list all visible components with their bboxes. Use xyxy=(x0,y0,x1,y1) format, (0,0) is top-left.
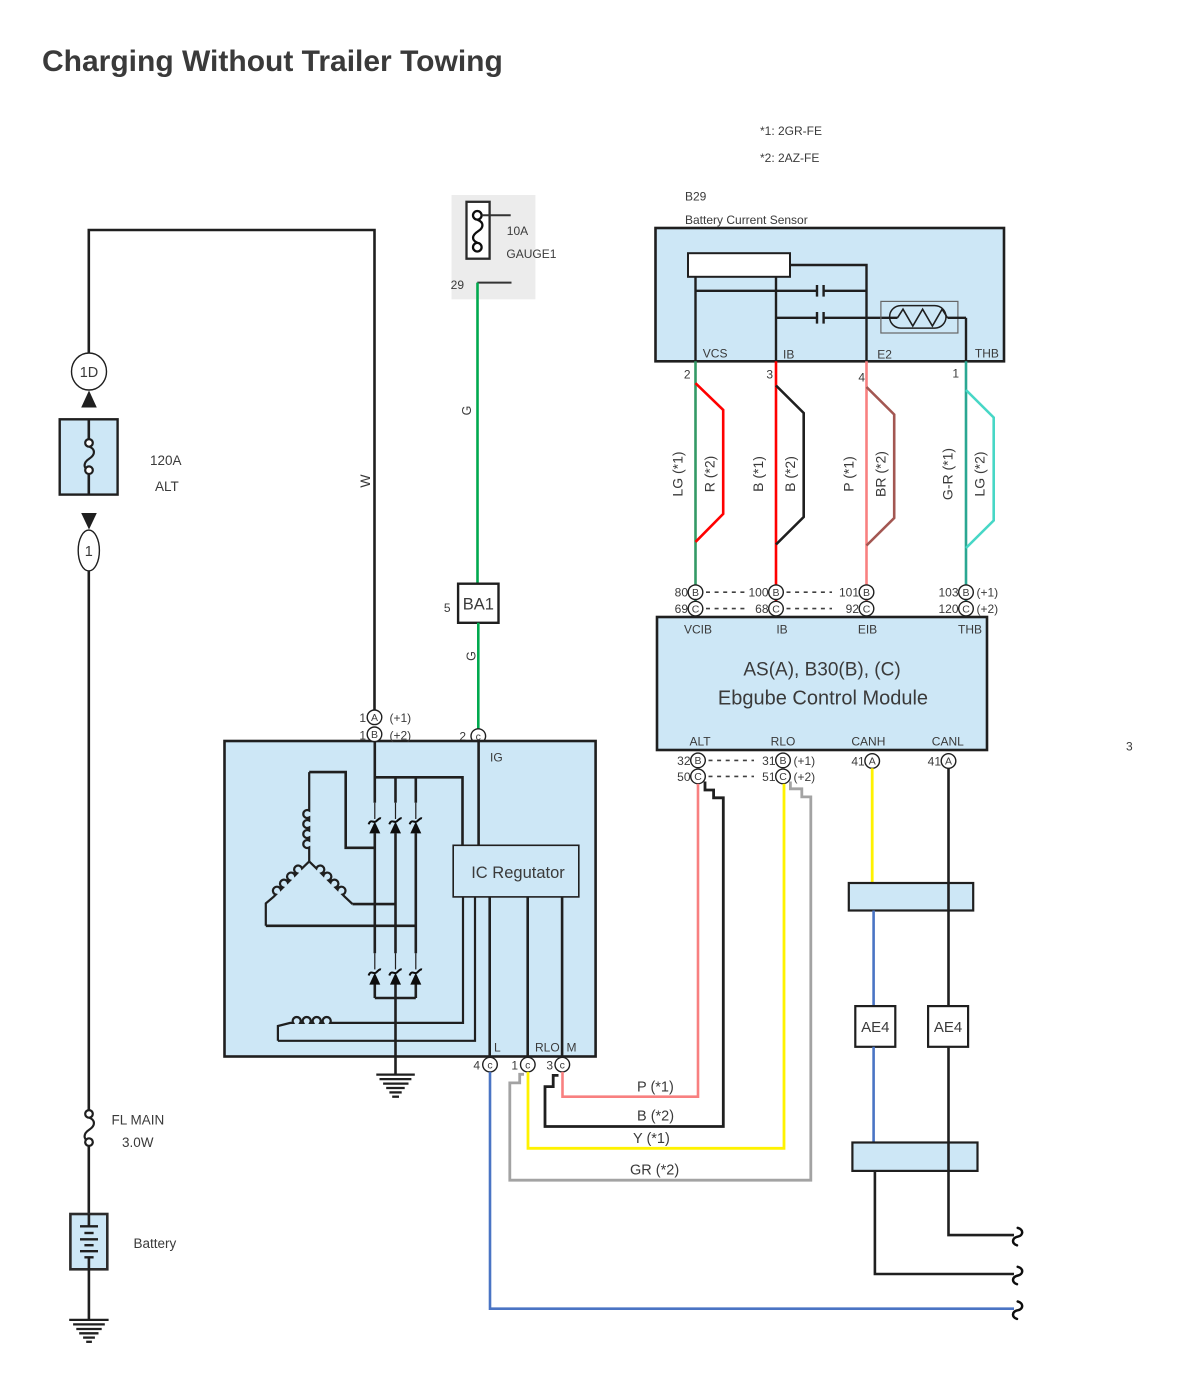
svg-text:Charging Without Trailer Towin: Charging Without Trailer Towing xyxy=(42,45,503,78)
svg-text:103: 103 xyxy=(938,586,958,600)
svg-text:CANL: CANL xyxy=(932,735,964,749)
svg-text:BA1: BA1 xyxy=(463,596,494,614)
svg-text:AE4: AE4 xyxy=(934,1019,962,1036)
svg-text:120A: 120A xyxy=(150,453,182,468)
wire node1 to FL MAIN xyxy=(88,571,91,1111)
connector AE4 (CANH) xyxy=(855,1006,895,1047)
svg-text:*1: 2GR-FE: *1: 2GR-FE xyxy=(760,124,822,138)
svg-text:4: 4 xyxy=(473,1058,480,1072)
fusible link FL MAIN xyxy=(85,1110,94,1146)
alternator box xyxy=(225,741,596,1057)
wire G: fuse 29 to BA1 xyxy=(476,283,479,584)
svg-text:G: G xyxy=(465,651,479,661)
diode D2 (upper col2) xyxy=(389,818,401,833)
svg-text:L: L xyxy=(494,1041,501,1055)
wire CANL (black) xyxy=(947,768,950,1006)
rotor field coil xyxy=(278,897,463,1041)
svg-text:VCS: VCS xyxy=(703,347,728,361)
svg-text:1: 1 xyxy=(952,367,959,381)
svg-text:(+1): (+1) xyxy=(794,754,816,768)
stator phase A coil xyxy=(303,772,309,861)
fuse 10A GAUGE1 (panel) xyxy=(452,195,536,299)
connector 103 B (+1) (THB) xyxy=(938,585,998,600)
dashed link B row 2-3 xyxy=(787,591,833,593)
svg-text:68: 68 xyxy=(755,602,769,616)
dashed link C row 1-2 xyxy=(706,608,749,610)
wire lower junction to splice (black) xyxy=(875,1171,1014,1274)
svg-text:1: 1 xyxy=(359,711,366,725)
wire L to splice (blue) xyxy=(490,1072,1014,1309)
svg-text:(+2): (+2) xyxy=(390,729,412,743)
svg-text:P (*1): P (*1) xyxy=(841,456,857,492)
wire: battery + rail (top loop to alternator B terminal) xyxy=(89,230,375,710)
wire AE4 to lower junction (blue) xyxy=(872,1047,875,1143)
svg-text:29: 29 xyxy=(451,278,465,292)
svg-text:3.0W: 3.0W xyxy=(122,1135,154,1150)
svg-text:B: B xyxy=(863,587,870,599)
svg-text:IB: IB xyxy=(783,348,794,362)
svg-text:2: 2 xyxy=(684,368,691,382)
sensor: shunt element xyxy=(688,253,790,277)
svg-text:1: 1 xyxy=(511,1058,518,1072)
svg-text:THB: THB xyxy=(958,623,982,637)
diode bus (top) to IC regulator xyxy=(375,777,463,845)
svg-text:BR (*2): BR (*2) xyxy=(873,451,889,497)
ground (battery) xyxy=(69,1320,108,1342)
wire FL MAIN to battery xyxy=(88,1146,91,1214)
fuse 10A GAUGE1 symbol xyxy=(467,202,511,259)
svg-text:A: A xyxy=(945,756,952,768)
svg-text:80: 80 xyxy=(675,586,689,600)
svg-text:69: 69 xyxy=(675,602,689,616)
svg-text:B (*1): B (*1) xyxy=(750,456,766,492)
svg-text:G-R (*1): G-R (*1) xyxy=(940,448,956,500)
wire G: BA1 to IG pin xyxy=(477,623,480,730)
svg-text:AE4: AE4 xyxy=(861,1019,889,1036)
fuse 120A ALT xyxy=(60,419,118,494)
diode column 1 segments xyxy=(374,803,376,998)
wire battery to ground xyxy=(88,1269,91,1319)
svg-text:B: B xyxy=(962,587,969,599)
svg-text:51: 51 xyxy=(762,770,776,784)
svg-text:C: C xyxy=(772,603,780,615)
diode D1 (upper col1) xyxy=(369,818,381,833)
svg-text:120: 120 xyxy=(938,602,958,616)
connector 41 A (CANH) xyxy=(851,754,879,769)
wire RLO pin xyxy=(526,897,529,1057)
svg-text:B: B xyxy=(371,729,378,741)
svg-text:4: 4 xyxy=(858,371,865,385)
sensor: wire THB vertical xyxy=(965,318,967,362)
wire arrow up into 1D xyxy=(81,391,97,408)
svg-text:3: 3 xyxy=(1126,740,1133,754)
CAN junction connector (upper) xyxy=(849,883,973,911)
svg-text:C: C xyxy=(779,771,787,783)
connector 50 C (ALT) xyxy=(677,769,705,784)
connector 120 C (+2) (THB) xyxy=(938,601,998,616)
svg-text:Battery Current Sensor: Battery Current Sensor xyxy=(685,213,808,227)
capacitor C2 (IB-THB) xyxy=(776,312,898,324)
connector 1 B (+2) (B terminal) xyxy=(359,727,411,743)
connector 1 A (+1) (B terminal) xyxy=(359,710,411,725)
svg-text:50: 50 xyxy=(677,770,691,784)
IC regulator box xyxy=(453,845,579,897)
svg-text:GR (*2): GR (*2) xyxy=(630,1163,679,1179)
svg-text:101: 101 xyxy=(839,586,859,600)
svg-text:c: c xyxy=(487,1059,492,1071)
connector 1 c (RLO) xyxy=(511,1057,535,1072)
svg-text:A: A xyxy=(371,712,378,724)
wire arrow down to node 1 xyxy=(81,513,97,530)
wire phase A to diode column 1 xyxy=(309,772,375,848)
stator phase C coil (right arm) xyxy=(309,861,352,904)
svg-text:EIB: EIB xyxy=(858,623,877,637)
svg-text:B (*2): B (*2) xyxy=(782,456,798,492)
CAN junction connector (lower) xyxy=(852,1143,977,1171)
diode column 2 segments xyxy=(394,777,397,1074)
svg-text:Y (*1): Y (*1) xyxy=(633,1131,670,1147)
svg-text:IB: IB xyxy=(776,623,787,637)
svg-text:B: B xyxy=(779,755,786,767)
connector 80 B (VCIB) xyxy=(675,585,703,600)
dashed link module B row xyxy=(709,759,755,761)
wire phase C to diode column 2 xyxy=(353,903,396,906)
sensor: wire VCS vertical xyxy=(694,277,696,362)
wire B (*2) ALT to M xyxy=(545,782,723,1127)
dashed link C row 2-3 xyxy=(787,608,833,610)
svg-text:100: 100 xyxy=(748,586,768,600)
wire Y (*1) RLO to RLO xyxy=(528,784,784,1149)
svg-text:G: G xyxy=(460,406,474,416)
wire phase B to diode column 3 xyxy=(266,924,416,927)
svg-text:31: 31 xyxy=(762,754,776,768)
svg-text:AS(A), B30(B), (C): AS(A), B30(B), (C) xyxy=(743,660,900,681)
svg-text:E2: E2 xyxy=(877,348,892,362)
svg-text:*2: 2AZ-FE: *2: 2AZ-FE xyxy=(760,151,819,165)
svg-text:Ebgube Control Module: Ebgube Control Module xyxy=(718,688,928,710)
op module: Ebgube Control Module box xyxy=(657,617,987,750)
svg-text:C: C xyxy=(692,603,700,615)
connector 68 C (IB) xyxy=(755,601,783,616)
svg-text:M: M xyxy=(567,1041,577,1055)
ground (alternator) xyxy=(376,1075,415,1097)
svg-text:c: c xyxy=(560,1059,565,1071)
svg-text:B: B xyxy=(772,587,779,599)
diode D5 (lower col2) xyxy=(389,969,401,984)
wire CANL through junction to splice xyxy=(949,1047,1015,1235)
connector 41 A (CANL) xyxy=(928,754,956,769)
svg-text:41: 41 xyxy=(928,755,942,769)
svg-text:5: 5 xyxy=(444,601,451,615)
svg-text:C: C xyxy=(863,603,871,615)
wire LG (*1) VCS to VCIB xyxy=(694,361,697,617)
wire M pin xyxy=(561,897,564,1057)
connector 69 C (VCIB) xyxy=(675,601,703,616)
sensor: wire shunt to E2 xyxy=(790,265,867,361)
wire G-R (*1) THB to THB xyxy=(965,361,968,617)
svg-text:(+2): (+2) xyxy=(977,602,999,616)
wire R (*2) bypass xyxy=(696,383,724,542)
svg-text:41: 41 xyxy=(851,755,865,769)
svg-text:B: B xyxy=(694,755,701,767)
svg-text:R (*2): R (*2) xyxy=(702,456,718,493)
dashed link module C row xyxy=(709,775,755,777)
svg-text:32: 32 xyxy=(677,754,691,768)
svg-text:ALT: ALT xyxy=(155,479,179,494)
sensor: wire IB vertical xyxy=(775,277,777,362)
wire B+ into diode column 1 xyxy=(373,741,376,803)
svg-text:THB: THB xyxy=(975,347,999,361)
svg-text:FL MAIN: FL MAIN xyxy=(112,1113,165,1128)
connector 101 B (EIB) xyxy=(839,585,874,600)
connector 31 B (+1) (RLO) xyxy=(762,753,815,768)
wire BR (*2) bypass xyxy=(867,387,895,546)
svg-text:IC Regutator: IC Regutator xyxy=(471,864,565,882)
diode D6 (lower col3) xyxy=(410,969,422,984)
svg-text:GAUGE1: GAUGE1 xyxy=(506,247,556,261)
svg-text:(+2): (+2) xyxy=(794,770,816,784)
wire P (*1) ALT to M xyxy=(563,784,699,1097)
connector BA1 xyxy=(458,584,498,623)
svg-text:10A: 10A xyxy=(507,224,528,238)
wire GR (*2) RLO to RLO xyxy=(510,782,811,1181)
wire CANH lower (blue) xyxy=(872,911,875,1007)
svg-text:W: W xyxy=(357,474,373,488)
stator phase B coil (left arm) xyxy=(266,861,309,925)
svg-text:A: A xyxy=(869,756,876,768)
svg-text:(+1): (+1) xyxy=(390,711,412,725)
svg-text:Battery: Battery xyxy=(134,1236,177,1251)
connector 3 c (M) xyxy=(546,1057,569,1072)
svg-text:3: 3 xyxy=(546,1058,553,1072)
svg-text:P (*1): P (*1) xyxy=(637,1080,674,1096)
svg-text:C: C xyxy=(694,771,702,783)
svg-text:RLO: RLO xyxy=(771,735,796,749)
wire end squiggle (blue) xyxy=(1013,1302,1022,1319)
wire end squiggle (CANL) xyxy=(1013,1228,1022,1245)
svg-text:IG: IG xyxy=(490,751,503,765)
battery current sensor B29 (box) xyxy=(656,228,1005,361)
wire CANH (yellow) xyxy=(871,768,874,883)
svg-text:ALT: ALT xyxy=(689,735,711,749)
connector AE4 (CANL) xyxy=(928,1006,968,1047)
wire L pin xyxy=(488,897,491,1057)
svg-text:B: B xyxy=(692,587,699,599)
svg-text:LG (*1): LG (*1) xyxy=(670,451,686,496)
svg-text:VCIB: VCIB xyxy=(684,623,712,637)
connector 32 B (ALT) xyxy=(677,753,705,768)
svg-text:1: 1 xyxy=(85,544,93,560)
svg-text:C: C xyxy=(962,603,970,615)
svg-text:B29: B29 xyxy=(685,190,707,204)
diode bus (bottom) xyxy=(375,997,416,1000)
wire end squiggle (lower) xyxy=(1013,1267,1022,1284)
svg-text:(+1): (+1) xyxy=(977,586,999,600)
svg-text:1: 1 xyxy=(359,729,366,743)
wire B (*1) IB to IB xyxy=(775,361,778,617)
dashed link B row 1-2 xyxy=(706,591,749,593)
thermistor (sensor) xyxy=(881,301,966,333)
connector 100 B (IB) xyxy=(748,585,783,600)
wire rotor coil lower return xyxy=(278,897,475,1041)
wire B (*2) bypass xyxy=(776,386,804,545)
node 1 xyxy=(78,530,99,571)
capacitor C1 (VCS-E2) xyxy=(696,285,867,297)
svg-text:1D: 1D xyxy=(80,365,99,381)
diode D3 (upper col3) xyxy=(410,818,422,833)
svg-text:c: c xyxy=(525,1059,530,1071)
wire LG (*2) bypass xyxy=(966,390,994,548)
svg-text:CANH: CANH xyxy=(851,735,885,749)
pin 2 connector c (IG) xyxy=(459,729,485,744)
svg-text:LG (*2): LG (*2) xyxy=(972,451,988,496)
battery xyxy=(70,1214,107,1269)
connector 51 C (+2) (RLO) xyxy=(762,769,815,784)
connector 92 C (EIB) xyxy=(846,601,874,616)
svg-text:3: 3 xyxy=(766,368,773,382)
svg-text:RLO: RLO xyxy=(535,1041,560,1055)
svg-text:B (*2): B (*2) xyxy=(637,1109,674,1125)
diode column 3 segments xyxy=(414,777,417,998)
node 1D xyxy=(72,353,107,390)
wire IG to IC regulator xyxy=(477,741,480,845)
diode D4 (lower col1) xyxy=(369,969,381,984)
connector 4 c (L) xyxy=(473,1057,497,1072)
svg-text:92: 92 xyxy=(846,602,860,616)
wire P (*1) E2 to EIB xyxy=(865,361,868,617)
